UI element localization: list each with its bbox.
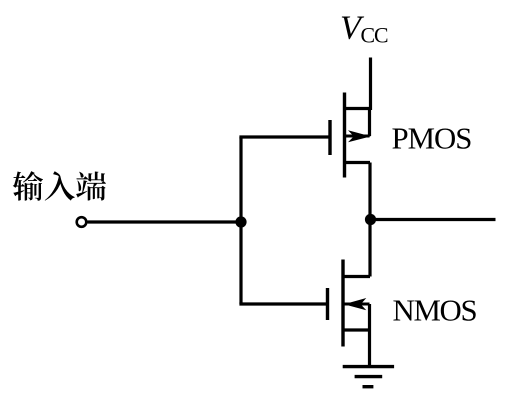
node: input terminal open circle	[77, 217, 87, 227]
transistor Q1 PMOS: body stub with arrow	[346, 135, 370, 138]
svg-text:NMOS: NMOS	[393, 294, 477, 328]
ground symbol: top bar	[343, 365, 394, 368]
node B: output junction dot	[365, 214, 376, 225]
wire: PMOS gate lead	[239, 135, 330, 138]
svg-text:PMOS: PMOS	[392, 122, 472, 156]
transistor Q2 NMOS: arrow head (points left)	[344, 298, 366, 310]
wire: gate bus vertical (junction to both gates)	[239, 137, 242, 304]
transistor Q1 PMOS: gate bar	[328, 120, 331, 155]
transistor Q1 PMOS: arrow head (points right)	[348, 130, 371, 142]
wire: output to right edge	[371, 218, 496, 221]
transistor Q1 PMOS: drain stub (bottom)	[345, 161, 371, 164]
transistor Q2 NMOS: source stub (bottom)	[343, 328, 370, 331]
node A: gate junction dot	[235, 216, 246, 227]
transistor Q1 PMOS: body tie vertical	[368, 109, 371, 137]
transistor Q2 NMOS: body tie vertical	[368, 304, 371, 330]
wire: NMOS gate lead	[239, 302, 329, 305]
transistor Q1 PMOS: source stub (top)	[345, 107, 371, 110]
ground symbol: middle bar	[355, 375, 383, 378]
transistor Q2 NMOS: gate bar	[326, 288, 329, 320]
transistor Q1 PMOS: channel bar	[343, 93, 346, 178]
node label: input terminal text 输入端	[13, 171, 106, 201]
svg-text:CC: CC	[361, 24, 389, 48]
wire: PMOS drain down to output node	[368, 163, 371, 222]
wire: output node down to NMOS drain	[368, 220, 371, 277]
wire: input terminal to gate junction	[88, 220, 242, 223]
transistor Q2 NMOS: drain stub (top)	[343, 275, 370, 278]
wire: NMOS source down to ground	[368, 330, 371, 367]
transistor Q2 NMOS: channel bar	[341, 260, 344, 347]
ground symbol: bottom bar	[363, 385, 374, 388]
wire: VCC lead down to PMOS source	[369, 58, 372, 111]
transistor Q2 NMOS: body stub with arrow	[345, 303, 370, 306]
